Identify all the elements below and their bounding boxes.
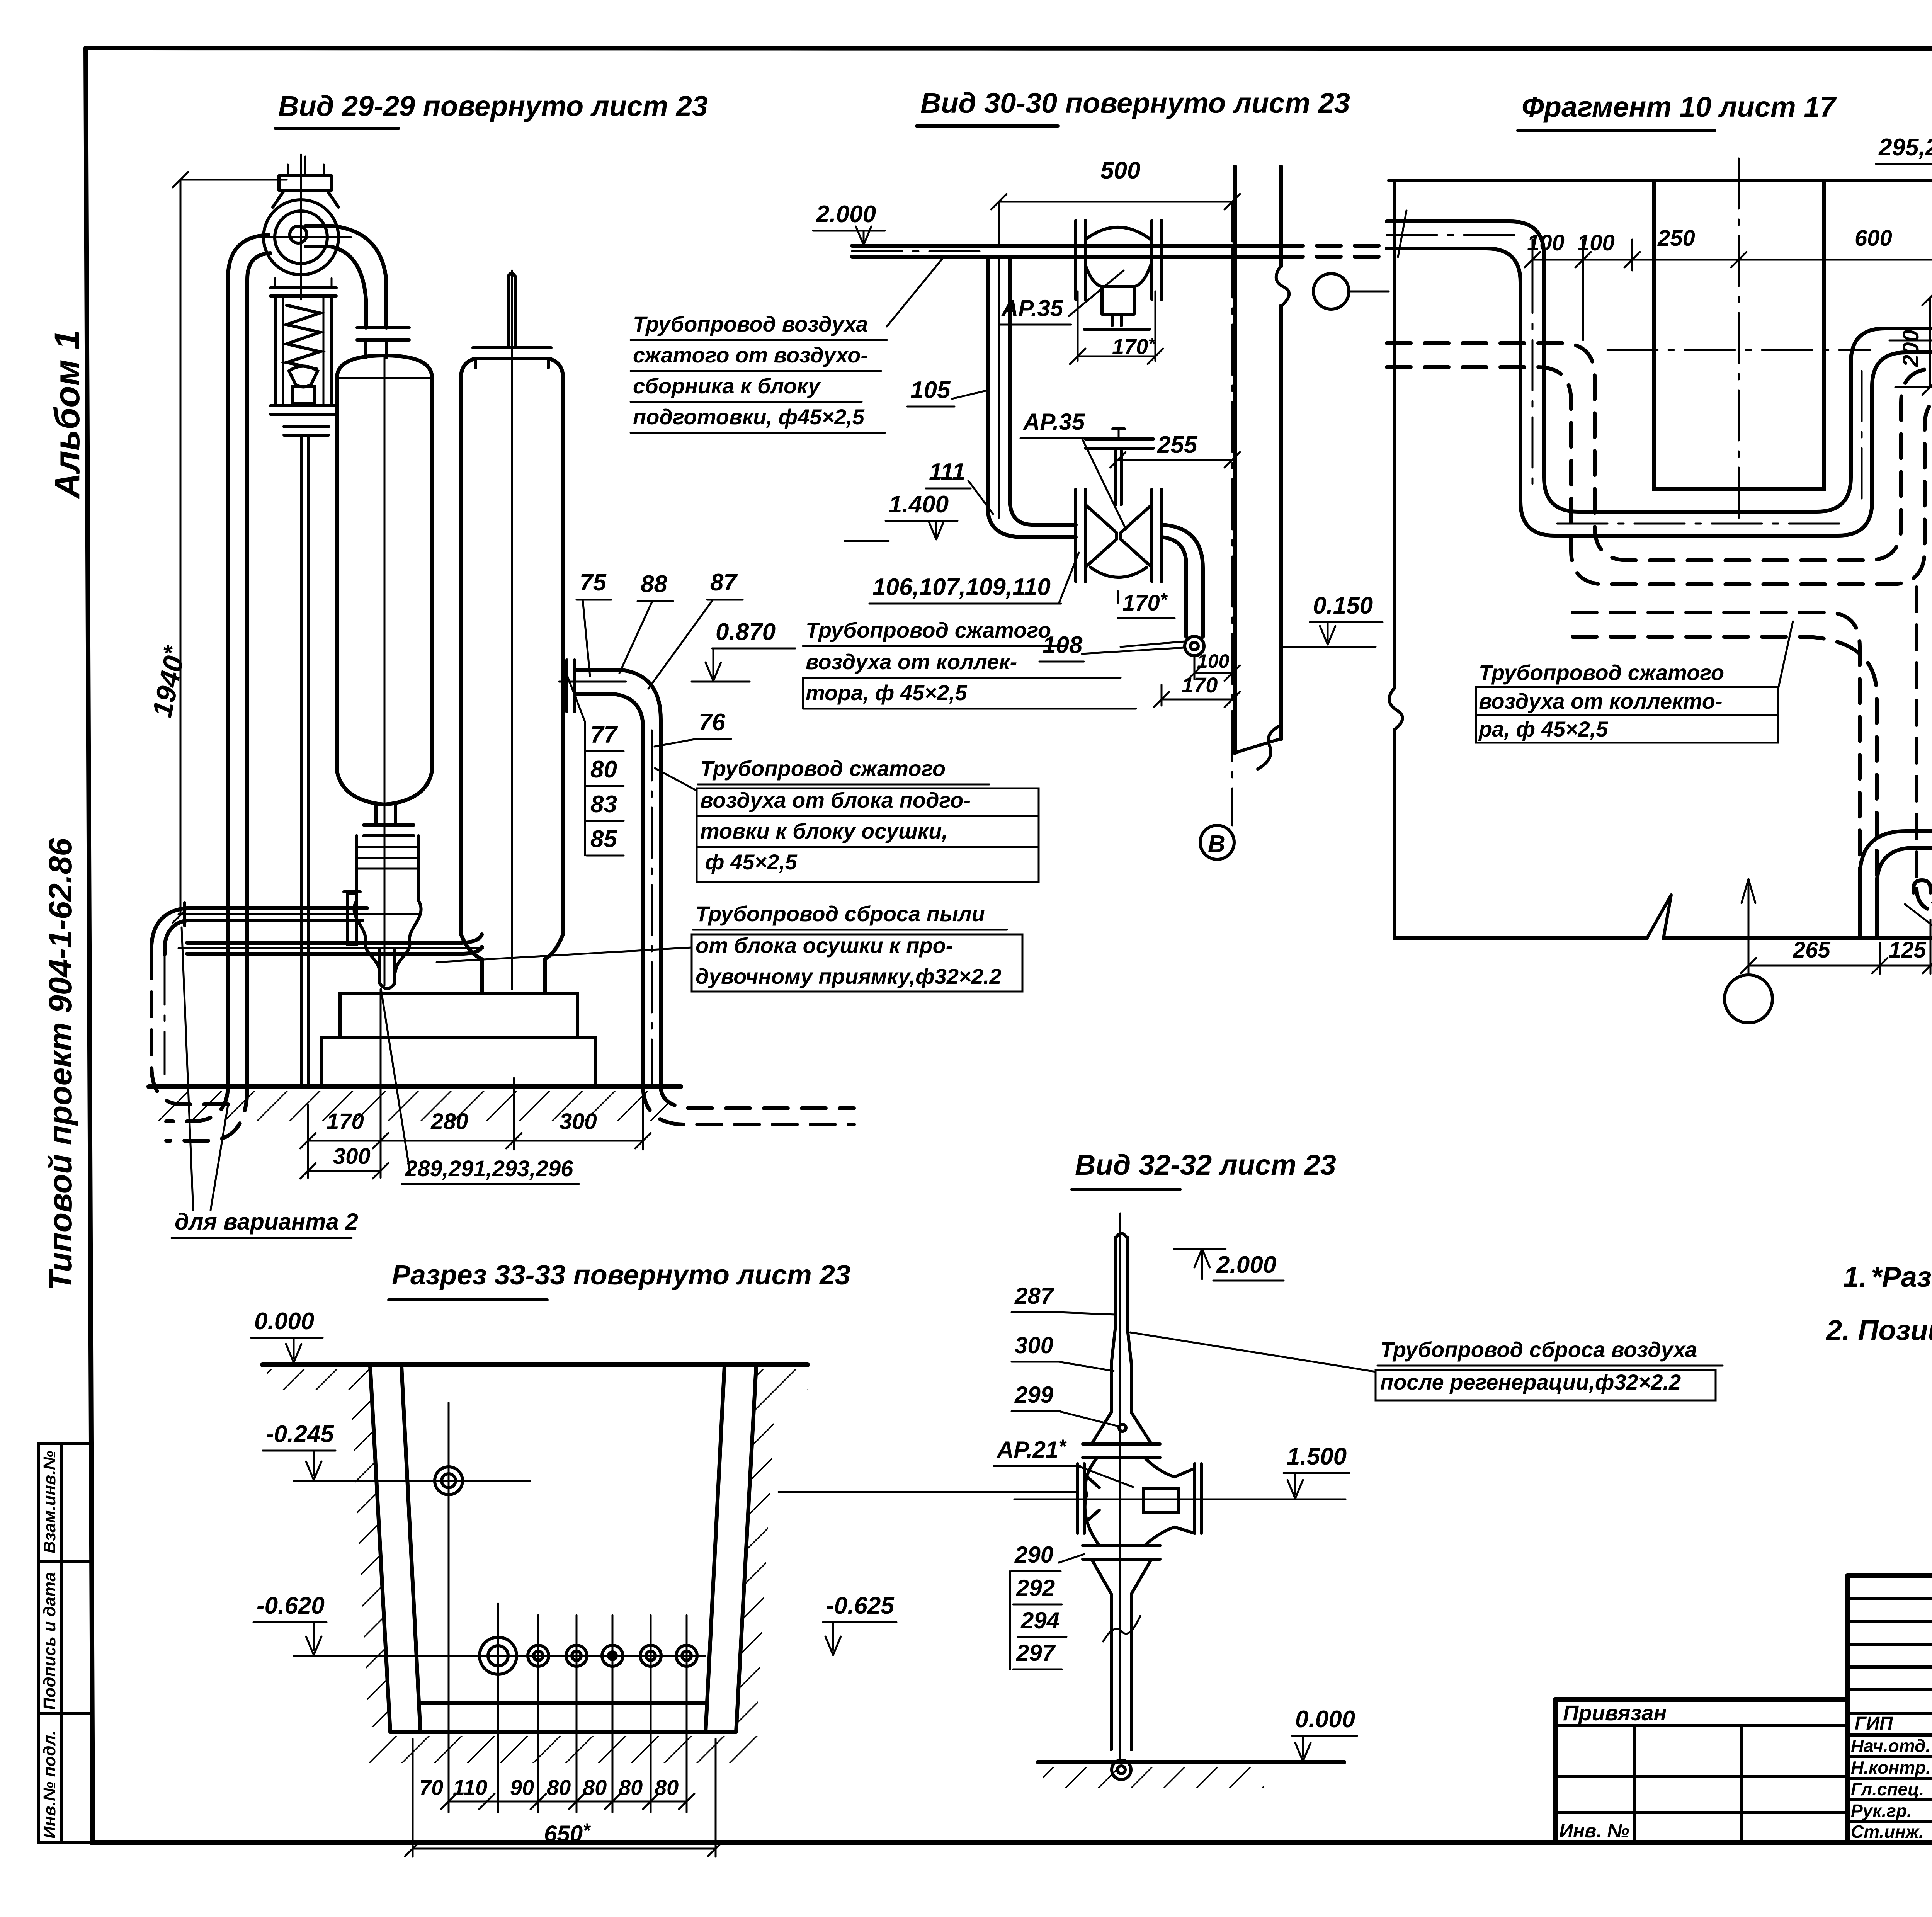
- right wing flange: [1193, 1464, 1196, 1533]
- svg-text:80: 80: [655, 1775, 679, 1800]
- svg-text:297: 297: [1016, 1640, 1056, 1666]
- pit hatch: [350, 1376, 389, 1727]
- axis bubble: [1313, 274, 1349, 309]
- pipe from valve to vessel: [305, 226, 386, 328]
- vessel B cap disc: [473, 346, 551, 349]
- wall top: [1389, 179, 1932, 182]
- svg-text:299: 299: [1014, 1382, 1054, 1408]
- dim 170* upper: [1077, 291, 1079, 361]
- elbow to horizontal: [988, 507, 1076, 537]
- svg-text:170: 170: [327, 1109, 364, 1134]
- coil spring: [287, 305, 320, 369]
- upper valve stem and wheel: [1111, 314, 1114, 326]
- drain fitting: [1185, 636, 1204, 656]
- top pipe 287: [1114, 1237, 1117, 1329]
- dimension 1940* line: [180, 180, 182, 915]
- spring seat: [289, 366, 318, 387]
- lower valve flanges: [1074, 489, 1077, 582]
- svg-text:Трубопровод сжатого: Трубопровод сжатого: [1479, 660, 1724, 685]
- upper valve flanges: [1074, 221, 1077, 299]
- svg-text:500: 500: [1100, 157, 1140, 184]
- dim 300 second: [308, 1170, 381, 1172]
- dashed risers to bottom elbows: [1915, 587, 1918, 889]
- notes: [1825, 1261, 1932, 1346]
- svg-text:Привязан: Привязан: [1563, 1701, 1667, 1725]
- svg-text:75: 75: [580, 569, 607, 596]
- left margin stamp boxes: [39, 1444, 93, 1842]
- solid pipe edge A: [1387, 221, 1932, 512]
- outer: [1847, 1573, 1932, 1578]
- svg-text:ф 45×2,5: ф 45×2,5: [705, 850, 798, 874]
- pipe 76 underground elbow: [643, 1087, 854, 1124]
- bottom dims 265 125 100: [1748, 965, 1932, 967]
- svg-text:Трубопровод сжатого: Трубопровод сжатого: [806, 618, 1051, 642]
- pipe left riser: [228, 235, 269, 1087]
- lower plate: [284, 425, 328, 428]
- drain valve: [348, 893, 356, 944]
- svg-text:2.000: 2.000: [816, 201, 876, 228]
- pit floor: [420, 1701, 706, 1705]
- left elbows to underground: [151, 908, 187, 954]
- valve cone upper: [1092, 1412, 1111, 1444]
- solid elbow bottom: [1860, 831, 1932, 937]
- svg-text:85: 85: [590, 826, 617, 852]
- vessel B bottom cone: [461, 935, 482, 993]
- pipe line to view 32-32: [779, 1491, 1078, 1493]
- svg-text:300: 300: [560, 1109, 597, 1134]
- vessel A dome: [337, 356, 432, 378]
- svg-text:80: 80: [619, 1775, 643, 1800]
- dims 170 280 300: [307, 1105, 309, 1178]
- spring unit top flange: [270, 286, 336, 289]
- lower flange: [1083, 1544, 1160, 1547]
- svg-text:Инв.№ подл.: Инв.№ подл.: [40, 1730, 59, 1839]
- svg-text:170: 170: [1182, 673, 1218, 697]
- bottom dims 70 110 90 80 80 80 80: [449, 1801, 687, 1803]
- svg-text:110: 110: [453, 1775, 487, 1800]
- pipe from lower valve to drain: [1162, 525, 1203, 637]
- lower horizontal pipe lower: [187, 934, 482, 943]
- pot wavy skirt: [354, 900, 380, 972]
- svg-text:300: 300: [1015, 1332, 1053, 1358]
- dim 500: [999, 201, 1232, 203]
- annex table (привязан): [1555, 1699, 1932, 1842]
- valve body: [1085, 1458, 1099, 1546]
- svg-text:70: 70: [419, 1775, 443, 1800]
- spring unit bottom flange: [270, 404, 336, 407]
- dashed pipe edge B: [1387, 367, 1932, 584]
- svg-text:290: 290: [1014, 1542, 1053, 1568]
- svg-text:1.400: 1.400: [889, 491, 949, 518]
- svg-text:Вид 30-30 повернуто лист 23: Вид 30-30 повернуто лист 23: [920, 87, 1350, 119]
- svg-text:от блока осушки к про-: от блока осушки к про-: [696, 933, 953, 958]
- svg-text:товки к блоку осушки,: товки к блоку осушки,: [700, 819, 948, 843]
- svg-text:255: 255: [1157, 432, 1198, 458]
- svg-text:Трубопровод сброса воздуха: Трубопровод сброса воздуха: [1380, 1337, 1697, 1362]
- svg-text:тора, ф 45×2,5: тора, ф 45×2,5: [806, 680, 968, 705]
- svg-text:1.500: 1.500: [1287, 1443, 1347, 1470]
- svg-text:2. Позиции см. листы 28-41.: 2. Позиции см. листы 28-41.: [1825, 1314, 1932, 1346]
- svg-text:106,107,109,110: 106,107,109,110: [872, 574, 1051, 600]
- svg-text:100: 100: [1527, 230, 1565, 255]
- vessel A top nozzle flange: [357, 326, 409, 329]
- svg-text:125: 125: [1889, 937, 1927, 963]
- svg-text:0.000: 0.000: [254, 1308, 314, 1335]
- wall bottom: [1395, 936, 1647, 940]
- svg-text:Подпись и дата: Подпись и дата: [40, 1572, 59, 1710]
- lower horizontal pipe upper: [187, 906, 367, 910]
- pot body: [355, 836, 358, 900]
- svg-text:ГИП: ГИП: [1855, 1713, 1893, 1734]
- svg-text:300: 300: [333, 1144, 371, 1169]
- svg-text:200: 200: [1898, 330, 1923, 367]
- svg-text:90: 90: [510, 1775, 534, 1800]
- dimension 1940* extension line: [180, 179, 287, 181]
- svg-text:294: 294: [1020, 1607, 1060, 1633]
- drip tube: [378, 949, 381, 983]
- top flange: [279, 174, 332, 177]
- svg-text:-0.620: -0.620: [257, 1592, 325, 1619]
- svg-text:Трубопровод сброса пыли: Трубопровод сброса пыли: [696, 902, 985, 926]
- upper valve dome: [1085, 227, 1151, 240]
- svg-text:дувочному приямку,ф32×2.2: дувочному приямку,ф32×2.2: [696, 964, 1001, 988]
- svg-text:1.*Размеры для справок.: 1.*Размеры для справок.: [1843, 1261, 1932, 1293]
- svg-text:0.000: 0.000: [1295, 1706, 1355, 1733]
- vessel B body: [459, 373, 463, 935]
- solid pipe centerline: [1387, 235, 1932, 524]
- left margin vertical captions: [42, 330, 87, 1291]
- title block: [1847, 1576, 1932, 1842]
- pot flange: [364, 823, 414, 827]
- vessel B stem: [507, 276, 510, 348]
- svg-text:289,291,293,296: 289,291,293,296: [405, 1156, 573, 1181]
- nozzle flange vessel B right: [565, 660, 568, 712]
- node circle below: [1725, 975, 1772, 1023]
- upper pipe section circle: [435, 1467, 463, 1495]
- svg-text:воздуха от коллекто-: воздуха от коллекто-: [1479, 689, 1723, 713]
- svg-text:воздуха от коллек-: воздуха от коллек-: [806, 650, 1017, 674]
- svg-text:Гл.спец.: Гл.спец.: [1851, 1779, 1924, 1799]
- svg-text:для варианта 2: для варианта 2: [175, 1209, 358, 1235]
- left wing flange: [1076, 1464, 1079, 1533]
- wall left: [1393, 180, 1396, 688]
- node B circle: [1200, 825, 1234, 859]
- dims top row: [1532, 259, 1932, 261]
- svg-text:295,298: 295,298: [1878, 134, 1932, 161]
- funnel below flange: [273, 190, 284, 207]
- svg-text:Фрагмент 10 лист 17: Фрагмент 10 лист 17: [1522, 91, 1837, 123]
- solid pipe break at left: [1398, 211, 1406, 257]
- collector pipe: [852, 244, 1279, 248]
- svg-text:АР.35: АР.35: [1022, 409, 1085, 435]
- svg-text:после регенерации,ф32×2.2: после регенерации,ф32×2.2: [1380, 1370, 1681, 1394]
- svg-text:292: 292: [1016, 1575, 1055, 1601]
- svg-text:сжатого от воздухо-: сжатого от воздухо-: [633, 343, 868, 367]
- dim 650*: [412, 1739, 414, 1857]
- dim 100 drain: [1194, 657, 1196, 679]
- svg-text:Трубопровод сжатого: Трубопровод сжатого: [700, 756, 946, 781]
- vessel A body: [335, 378, 339, 771]
- vessel A neck: [374, 805, 378, 825]
- svg-text:Ст.инж.: Ст.инж.: [1851, 1822, 1924, 1842]
- vessel B shoulder: [461, 359, 563, 373]
- svg-text:Вид 32-32 лист 23: Вид 32-32 лист 23: [1075, 1149, 1336, 1181]
- svg-text:Н.контр.: Н.контр.: [1851, 1757, 1931, 1778]
- upper flange: [1083, 1442, 1160, 1446]
- dim 170* lower: [1117, 591, 1119, 603]
- svg-text:88: 88: [641, 571, 667, 597]
- pit walls: [370, 1366, 390, 1732]
- pedestal upper step: [340, 993, 577, 1037]
- svg-text:100: 100: [1577, 230, 1615, 255]
- lower valve body: [1085, 505, 1116, 567]
- upper valve body: [1085, 265, 1151, 314]
- dashed pipe edge A: [1387, 343, 1932, 560]
- ground line: [149, 1084, 681, 1089]
- safety valve circle: [264, 200, 338, 275]
- cone lower: [1092, 1559, 1111, 1594]
- svg-text:Разрез 33-33 повернуто лист: Разрез 33-33 повернуто лист 23: [392, 1260, 850, 1291]
- svg-text:Рук.гр.: Рук.гр.: [1851, 1801, 1912, 1821]
- svg-text:80: 80: [547, 1775, 571, 1800]
- central rectangle: [1654, 180, 1824, 489]
- svg-text:265: 265: [1793, 937, 1831, 963]
- vessel A bottom dome: [337, 771, 432, 805]
- lower dashed pair to pit: [1573, 612, 1860, 877]
- svg-text:87: 87: [710, 569, 738, 596]
- svg-text:сборника к блоку: сборника к блоку: [633, 374, 821, 398]
- svg-text:Типовой проект 904-1-62.86: Типовой проект 904-1-62.86: [42, 838, 78, 1291]
- svg-text:287: 287: [1014, 1283, 1054, 1309]
- axis line: [1231, 247, 1233, 825]
- svg-text:100: 100: [1197, 650, 1230, 672]
- center line: [1014, 1499, 1341, 1500]
- svg-text:2.000: 2.000: [1216, 1252, 1276, 1278]
- center rect: [1144, 1488, 1179, 1512]
- dim 200: [1929, 298, 1931, 387]
- dim 255: [1118, 459, 1232, 461]
- ground: [1038, 1760, 1344, 1764]
- pipe 76 horizontal and riser: [575, 670, 661, 1087]
- svg-text:105: 105: [910, 377, 951, 403]
- spring unit guides: [274, 296, 277, 406]
- axis: [1119, 1213, 1121, 1761]
- svg-text:0.150: 0.150: [1313, 592, 1373, 619]
- title underline: [275, 127, 399, 130]
- pipe row circles: [480, 1637, 517, 1674]
- svg-text:76: 76: [699, 709, 725, 736]
- tee vertical pipe 105: [986, 257, 990, 507]
- svg-text:Вид 29-29 повернуто лист 23: Вид 29-29 повернуто лист 23: [278, 90, 708, 122]
- svg-text:воздуха от блока подго-: воздуха от блока подго-: [700, 788, 971, 812]
- wall column: [1233, 167, 1237, 753]
- svg-text:Нач.отд.: Нач.отд.: [1851, 1736, 1930, 1756]
- lower valve stem and wheel: [1114, 451, 1117, 505]
- svg-text:-0.245: -0.245: [266, 1421, 334, 1448]
- svg-text:АР.21*: АР.21*: [996, 1436, 1067, 1463]
- svg-text:Инв. №: Инв. №: [1559, 1820, 1629, 1842]
- svg-text:В: В: [1208, 831, 1225, 857]
- dim 170 drain: [1161, 685, 1163, 706]
- svg-text:80: 80: [590, 756, 617, 783]
- svg-text:АР.35: АР.35: [1001, 295, 1064, 321]
- svg-text:80: 80: [583, 1775, 607, 1800]
- valve stem pipe: [300, 435, 303, 1086]
- lower pipe: [1110, 1594, 1113, 1750]
- svg-text:Альбом 1: Альбом 1: [48, 330, 87, 499]
- staff thin rows: [1847, 1597, 1932, 1600]
- svg-text:подготовки, ф45×2,5: подготовки, ф45×2,5: [633, 405, 865, 429]
- svg-text:111: 111: [929, 459, 965, 485]
- svg-text:Трубопровод воздуха: Трубопровод воздуха: [633, 312, 868, 336]
- svg-text:-0.625: -0.625: [826, 1592, 895, 1619]
- svg-text:0.870: 0.870: [716, 619, 776, 645]
- solid pipe edge B: [1387, 248, 1932, 536]
- svg-text:83: 83: [590, 791, 617, 818]
- svg-text:250: 250: [1657, 226, 1695, 251]
- valve block: [293, 386, 315, 404]
- svg-text:Взам.инв.№: Взам.инв.№: [40, 1451, 59, 1553]
- svg-text:77: 77: [590, 721, 618, 748]
- svg-text:280: 280: [430, 1109, 468, 1134]
- svg-text:600: 600: [1855, 226, 1892, 251]
- ground line: [262, 1362, 808, 1367]
- svg-text:ра, ф 45×2,5: ра, ф 45×2,5: [1478, 717, 1608, 741]
- pedestal lower step: [322, 1037, 595, 1087]
- level 2.000: [1174, 1248, 1226, 1250]
